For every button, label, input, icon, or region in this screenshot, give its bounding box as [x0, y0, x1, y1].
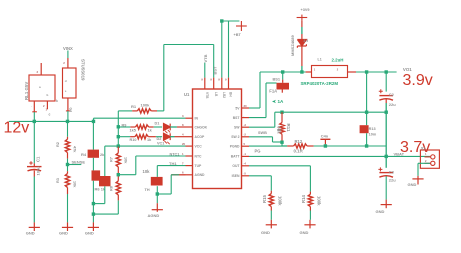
ground [148, 203, 163, 218]
svg-text:OUT: OUT [232, 164, 240, 168]
svg-text:GND: GND [408, 182, 417, 187]
label 12v [4, 120, 30, 137]
svg-text:-3: -3 [244, 123, 247, 127]
svg-text:2.2uH: 2.2uH [332, 57, 344, 62]
svg-text:10m: 10m [369, 133, 377, 137]
zener D3 [297, 34, 306, 72]
wire [356, 71, 397, 73]
junction [92, 202, 95, 205]
label [145, 188, 150, 192]
svg-text:C3: C3 [389, 170, 395, 175]
resistor R15 [269, 191, 273, 220]
net label [394, 151, 405, 156]
svg-text:ISEN: ISEN [232, 174, 240, 178]
junction [280, 141, 283, 144]
label 3.7v [400, 139, 430, 156]
svg-text:TH1: TH1 [169, 161, 177, 166]
svg-text:AGND: AGND [195, 173, 206, 177]
wire pin BST [249, 83, 277, 118]
net label [213, 66, 218, 75]
svg-text:BS1: BS1 [273, 76, 281, 81]
svg-text:d: d [65, 79, 67, 83]
label R14 [301, 195, 322, 207]
label B1 pin [46, 108, 51, 117]
svg-text:VCC: VCC [195, 144, 203, 148]
inductor L1 [306, 66, 356, 78]
net label [170, 152, 180, 156]
junction [385, 70, 388, 73]
wire tap stub [68, 164, 82, 166]
net label [157, 141, 164, 145]
svg-text:22u: 22u [389, 178, 396, 183]
wire pin SW [249, 112, 275, 127]
svg-text:R3: R3 [56, 178, 60, 183]
resistor R2 divider top [65, 137, 69, 159]
svg-text:VTB: VTB [205, 92, 209, 99]
svg-text:-2: -2 [244, 133, 247, 137]
label R11 [277, 124, 292, 135]
svg-text:SWB: SWB [258, 131, 267, 135]
capacitor C3 [378, 167, 396, 199]
svg-text:BATT: BATT [231, 155, 241, 159]
wire [228, 21, 230, 78]
junction [365, 111, 368, 114]
wire [67, 159, 69, 172]
wire [314, 145, 387, 147]
svg-text:BST: BST [213, 66, 218, 75]
svg-text:1k5: 1k5 [130, 128, 136, 132]
label [403, 67, 412, 72]
svg-text:+BT: +BT [234, 33, 242, 37]
resistor R14 [308, 192, 312, 220]
svg-text:L1: L1 [318, 58, 322, 62]
wire AGND [171, 174, 185, 176]
svg-text:D1: D1 [155, 122, 160, 126]
fuse F1 [269, 72, 289, 93]
wire [171, 174, 179, 176]
svg-text:VTB: VTB [203, 54, 208, 62]
ground [26, 222, 40, 235]
resistor R6 smd [95, 176, 111, 192]
svg-text:PG: PG [255, 148, 261, 153]
resistor R8 [116, 181, 120, 201]
wire NTC [118, 156, 185, 175]
junction [220, 19, 223, 22]
svg-text:-1: -1 [244, 152, 247, 156]
svg-text:10k: 10k [73, 181, 77, 188]
label R7 [109, 157, 127, 164]
capacitor C4 [320, 133, 330, 146]
svg-text:NTC1: NTC1 [170, 152, 180, 156]
svg-text:GND: GND [59, 230, 68, 235]
wire [92, 158, 94, 171]
svg-text:G4: G4 [68, 108, 72, 113]
svg-text:R4: R4 [81, 152, 87, 157]
svg-text:b: b [47, 93, 49, 97]
junction [92, 212, 95, 215]
label C1 [35, 156, 40, 176]
ground [261, 220, 277, 235]
label R2 [56, 142, 77, 153]
label L1 value [318, 57, 344, 62]
resistor R11 [280, 112, 284, 142]
wire [92, 181, 94, 223]
resistor R10 [118, 135, 162, 139]
svg-text:VO1: VO1 [403, 67, 412, 72]
junction [117, 125, 120, 128]
svg-text:GND: GND [26, 230, 35, 235]
wire BATT rail [249, 155, 430, 157]
wire 12v rail [9, 120, 94, 122]
junction [280, 111, 283, 114]
wire VCC rail [105, 145, 186, 147]
component B1 (left box) [29, 63, 55, 112]
svg-text:SENSE: SENSE [72, 160, 86, 165]
wire [282, 142, 287, 146]
wire [204, 63, 206, 78]
wire [67, 121, 69, 136]
junction [117, 144, 120, 147]
svg-text:TUP: TUP [195, 164, 203, 168]
svg-text:100k: 100k [277, 196, 282, 206]
svg-text:BH: BH [229, 92, 233, 97]
svg-text:3.9v: 3.9v [403, 72, 433, 89]
svg-text:k: k [56, 99, 58, 103]
svg-text:R15: R15 [262, 195, 267, 203]
capacitor C1 [27, 121, 42, 222]
junction [33, 120, 36, 123]
wire [221, 21, 223, 78]
ground [300, 220, 316, 235]
svg-text:R11: R11 [286, 124, 291, 133]
svg-text:C4n: C4n [321, 133, 329, 138]
junction [281, 70, 284, 73]
junction [385, 155, 388, 158]
svg-text:12v: 12v [4, 120, 30, 137]
wire [104, 146, 106, 176]
label 3.9v [403, 72, 433, 89]
svg-text:100k: 100k [316, 196, 321, 206]
wire pin ISEN [249, 176, 271, 191]
diode D1 [164, 124, 186, 134]
label R8 [109, 186, 113, 191]
ground [59, 222, 73, 235]
ground [408, 176, 424, 187]
wire pin PGND [249, 145, 287, 147]
svg-text:VINX: VINX [63, 46, 73, 51]
svg-text:1A: 1A [278, 99, 285, 104]
svg-text:R9: R9 [122, 124, 127, 128]
svg-text:NTC: NTC [195, 154, 203, 158]
svg-text:C2: C2 [389, 92, 395, 97]
svg-text:SW 2: SW 2 [231, 135, 239, 139]
svg-text:-4: -4 [244, 162, 247, 166]
svg-text:R2: R2 [56, 142, 60, 147]
junction [66, 120, 69, 123]
svg-text:STU5S019: STU5S019 [81, 59, 86, 81]
wire pin OUT [249, 166, 310, 192]
svg-text:R7: R7 [109, 157, 113, 162]
svg-text:RL1 G5V: RL1 G5V [24, 82, 29, 100]
junction [324, 144, 327, 147]
label R9 [122, 122, 160, 133]
ground [376, 200, 392, 214]
wire pin SW2 [249, 137, 282, 142]
label right of B1 [56, 99, 58, 103]
wire [418, 163, 430, 176]
junction [300, 70, 303, 73]
thermistor SMD [143, 169, 163, 185]
svg-text:GND: GND [376, 209, 385, 214]
label L1 name [301, 81, 339, 86]
label X1 [421, 146, 426, 150]
resistor R4 smd [81, 150, 105, 158]
svg-text:LB2: LB2 [222, 92, 226, 98]
label B1 name [24, 82, 29, 100]
svg-text:GND: GND [300, 230, 309, 235]
svg-text:BST: BST [233, 116, 241, 120]
net label VIN1 [63, 46, 73, 51]
svg-text:R12: R12 [295, 139, 303, 144]
wire pin 5V [249, 72, 260, 108]
label R1 [131, 102, 150, 109]
junction tap [117, 173, 120, 176]
net label [203, 54, 208, 62]
resistor R5 smd [92, 170, 101, 180]
svg-text:ACOP: ACOP [195, 135, 206, 139]
wire [366, 133, 368, 146]
wire [366, 72, 368, 125]
svg-text:22u: 22u [389, 102, 396, 107]
wire [92, 121, 94, 149]
wire [156, 186, 158, 203]
net label [258, 128, 282, 135]
connector X1 [420, 150, 439, 168]
wire [117, 111, 119, 146]
junction [92, 120, 95, 123]
ground [85, 222, 99, 235]
svg-text:C1: C1 [35, 156, 40, 162]
wire [93, 186, 104, 203]
svg-text:3.9: 3.9 [303, 39, 308, 43]
net label [273, 76, 281, 81]
svg-text:R6 1k: R6 1k [95, 187, 106, 192]
svg-text:SW: SW [234, 126, 240, 130]
svg-text:R1: R1 [131, 104, 137, 109]
svg-text:10k: 10k [123, 157, 127, 164]
svg-text:100u: 100u [35, 166, 40, 176]
svg-text:20: 20 [182, 142, 186, 146]
label R3 [56, 178, 77, 188]
wire [222, 20, 240, 22]
label Q2 value [81, 59, 86, 81]
svg-text:5V: 5V [235, 106, 240, 110]
capacitor C2 [379, 72, 396, 168]
svg-text:F1A: F1A [269, 88, 277, 93]
junction [365, 70, 368, 73]
junction [117, 135, 120, 138]
svg-text:R14: R14 [301, 195, 306, 203]
svg-text:0.1R: 0.1R [294, 149, 304, 154]
wire [67, 51, 69, 59]
resistor R12 [287, 144, 313, 148]
svg-text:R13: R13 [369, 127, 376, 131]
svg-text:GND: GND [85, 230, 94, 235]
op-amp U1 charger IC [182, 78, 249, 189]
svg-text:U1: U1 [184, 92, 190, 97]
junction [385, 111, 388, 114]
svg-text:R8: R8 [109, 186, 113, 191]
label R15 [262, 195, 283, 207]
svg-text:D2: D2 [157, 137, 162, 141]
power +3V9 zener branch [297, 8, 310, 34]
svg-text:LB: LB [214, 92, 218, 97]
svg-text:VC1: VC1 [157, 141, 164, 145]
svg-text:GND: GND [261, 230, 270, 235]
svg-text:PGND: PGND [230, 145, 240, 149]
label D3 [290, 35, 308, 56]
wire riser [164, 45, 214, 111]
resistor R7 [116, 146, 120, 181]
svg-text:-5: -5 [244, 172, 247, 176]
label [169, 161, 177, 166]
wire rail jog [94, 118, 186, 121]
svg-text:R10: R10 [130, 138, 137, 142]
wire [93, 200, 118, 214]
wire [33, 112, 35, 121]
label R12 [294, 139, 304, 154]
junction divider tap [66, 163, 69, 166]
wire [67, 194, 69, 222]
wire SW rail [275, 111, 386, 113]
svg-text:47k: 47k [73, 146, 77, 153]
wire [67, 111, 69, 121]
label R10 [130, 137, 162, 142]
transistor Q2 (upper small box) [63, 58, 77, 112]
junction [156, 192, 159, 195]
svg-text:AGND: AGND [148, 213, 160, 218]
wire TUP [157, 166, 185, 177]
svg-text:c: c [49, 113, 51, 117]
resistor R1 [118, 109, 164, 113]
wire [157, 175, 171, 194]
svg-text:10k: 10k [143, 169, 151, 174]
label U1 [184, 92, 190, 97]
resistor R3 divider bottom [65, 171, 69, 194]
svg-text:100k: 100k [141, 102, 151, 107]
wire rail 3.9 [260, 71, 306, 73]
svg-text:SRP4020TA-2R2M: SRP4020TA-2R2M [301, 81, 339, 86]
resistor R13 smd [360, 125, 377, 136]
svg-text:30: 30 [244, 104, 248, 108]
svg-text:sw: sw [277, 128, 282, 132]
svg-text:TH: TH [145, 188, 150, 192]
net label 1A [272, 99, 284, 104]
power +BATT [234, 21, 247, 37]
svg-text:MMSZ4689: MMSZ4689 [290, 35, 295, 56]
svg-text:CHGOK: CHGOK [195, 125, 208, 129]
junction [365, 144, 368, 147]
net label tap [72, 160, 86, 165]
diode D2 [164, 133, 186, 144]
svg-text:+3V9: +3V9 [301, 8, 310, 12]
net label PG [255, 148, 261, 153]
svg-text:X1: X1 [421, 146, 426, 150]
resistor R9 [118, 125, 162, 129]
svg-text:IN: IN [195, 117, 199, 121]
